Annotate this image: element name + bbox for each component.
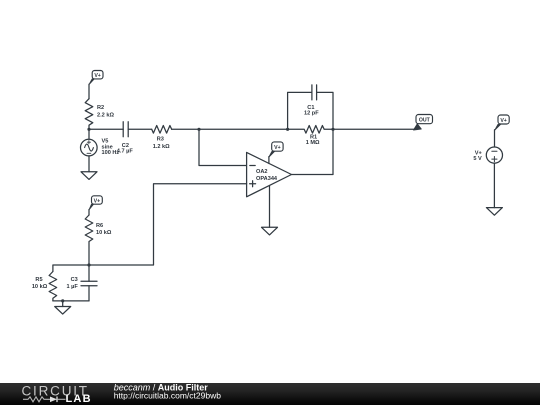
wire flag to R6 xyxy=(88,210,90,216)
ground (bottom left) xyxy=(55,307,71,315)
svg-text:LAB: LAB xyxy=(66,393,92,405)
wire bottom joining R5 and C3 xyxy=(53,300,89,302)
capacitor C1 12pF (feedback loop) xyxy=(288,85,333,129)
svg-text:R2: R2 xyxy=(97,105,104,111)
resistor R1 1M xyxy=(288,126,333,147)
wire C2 to R3 xyxy=(128,128,152,130)
wire op-amp to ground xyxy=(269,186,271,227)
node A junction xyxy=(87,128,90,131)
net flag V+ (top left) xyxy=(89,71,103,85)
svg-text:12 pF: 12 pF xyxy=(304,111,319,117)
node F junction xyxy=(61,299,64,302)
svg-text:V+: V+ xyxy=(94,73,101,79)
wire node B to op-amp inverting input xyxy=(199,129,247,165)
net flag V+ (right, above V source) xyxy=(495,115,509,130)
resistor R6 10k xyxy=(85,215,112,265)
node E junction xyxy=(87,263,90,266)
wire node F to ground xyxy=(62,301,64,307)
node D junction xyxy=(331,128,334,131)
svg-text:V+: V+ xyxy=(94,198,101,204)
svg-text:OUT: OUT xyxy=(419,117,431,123)
svg-text:V+: V+ xyxy=(274,145,281,151)
svg-text:10 kΩ: 10 kΩ xyxy=(32,284,48,290)
svg-text:5 V: 5 V xyxy=(473,156,482,162)
node B junction xyxy=(197,128,200,131)
net flag V+ (above R6) xyxy=(89,196,102,210)
wire A to C2 xyxy=(89,128,123,130)
svg-text:100 Hz: 100 Hz xyxy=(102,150,120,156)
wire R3 to node C xyxy=(172,128,288,130)
svg-text:C3: C3 xyxy=(71,277,78,283)
voltage source V+ 5V xyxy=(473,147,502,163)
ground (under V5) xyxy=(81,172,97,180)
svg-text:1 MΩ: 1 MΩ xyxy=(306,140,320,146)
net flag V+ (above op-amp) xyxy=(269,142,283,164)
svg-text:10 kΩ: 10 kΩ xyxy=(96,230,112,236)
ground (right) xyxy=(486,208,502,216)
svg-text:V+: V+ xyxy=(500,118,507,124)
ground (under op-amp) xyxy=(262,227,278,235)
voltage source V5 sine xyxy=(81,129,120,156)
CircuitLab logo bar xyxy=(0,382,540,405)
svg-text:http://circuitlab.com/ct29bwb: http://circuitlab.com/ct29bwb xyxy=(114,390,222,400)
wire op-amp non-inverting input to node E xyxy=(89,184,247,265)
wire V source to ground xyxy=(493,163,495,207)
svg-text:1.2 kΩ: 1.2 kΩ xyxy=(153,144,170,150)
resistor R2 2.2k xyxy=(85,99,114,130)
svg-text:2.2 kΩ: 2.2 kΩ xyxy=(97,112,114,118)
wire node D to OUT flag xyxy=(333,128,415,130)
wire flag to R2 xyxy=(88,84,90,98)
svg-text:1 µF: 1 µF xyxy=(66,284,78,290)
wire node E to R5 xyxy=(53,265,89,272)
svg-text:OA2: OA2 xyxy=(256,169,268,175)
wire flag to V source xyxy=(494,130,496,147)
resistor R3 1.2k xyxy=(152,126,172,151)
resistor R5 10k xyxy=(32,272,57,301)
capacitor C2 4.7uF xyxy=(117,122,134,155)
svg-text:OPA344: OPA344 xyxy=(256,176,278,182)
net flag OUT xyxy=(414,115,433,131)
wire V5 to ground xyxy=(88,156,90,172)
svg-text:R5: R5 xyxy=(35,277,42,283)
capacitor C3 1uF xyxy=(66,265,97,301)
node C junction xyxy=(286,128,289,131)
svg-text:R6: R6 xyxy=(96,223,103,229)
svg-text:R3: R3 xyxy=(157,137,164,143)
wire node D to op-amp output xyxy=(292,129,334,174)
op-amp OA2 OPA344 xyxy=(247,152,292,196)
svg-text:4.7 µF: 4.7 µF xyxy=(117,149,134,155)
